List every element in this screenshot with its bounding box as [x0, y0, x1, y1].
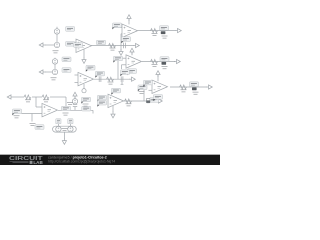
svg-text:LAB: LAB: [33, 160, 42, 165]
svg-text:http://circuitlab.com/c/pq5j2k: http://circuitlab.com/c/pq5j2ka/projeto1…: [48, 159, 115, 163]
